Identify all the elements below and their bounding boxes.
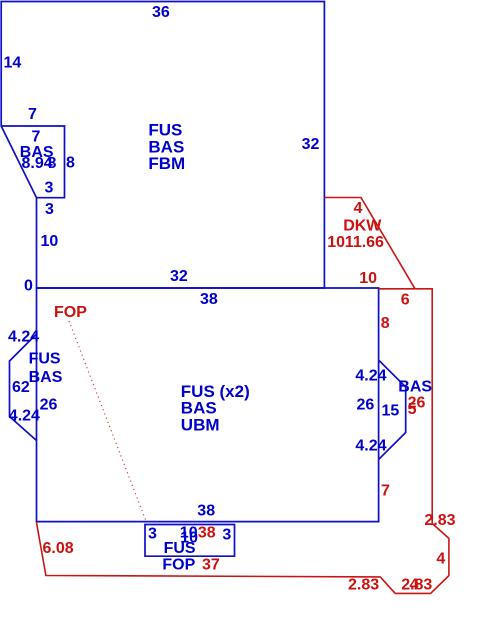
svg-text:8: 8	[66, 155, 75, 172]
svg-text:DKW: DKW	[343, 218, 382, 235]
svg-text:4: 4	[410, 577, 419, 594]
svg-text:3: 3	[222, 527, 231, 544]
svg-text:38: 38	[200, 291, 218, 308]
svg-text:4: 4	[354, 200, 363, 217]
svg-text:4.24: 4.24	[355, 438, 386, 455]
svg-text:4.24: 4.24	[355, 367, 386, 384]
svg-text:7: 7	[28, 106, 37, 123]
piece FUS(x2)/BAS/UBM outline (middle panel)	[37, 288, 379, 522]
svg-text:6: 6	[401, 292, 410, 309]
svg-text:0: 0	[24, 278, 33, 295]
small BAS piece diagonal edge 8.94	[1, 126, 36, 198]
svg-text:26: 26	[40, 397, 58, 414]
svg-text:2.83: 2.83	[348, 577, 379, 594]
left tab piece FUS/BAS hexagon	[10, 334, 37, 441]
svg-text:36: 36	[152, 4, 170, 21]
svg-text:37: 37	[202, 557, 220, 574]
svg-text:38: 38	[197, 503, 215, 520]
svg-text:10: 10	[359, 270, 377, 287]
svg-text:BAS: BAS	[29, 369, 63, 386]
bottom small piece FUS/FOP rectangle	[145, 525, 235, 557]
svg-text:7: 7	[381, 483, 390, 500]
svg-text:8: 8	[381, 315, 390, 332]
svg-text:62: 62	[12, 379, 30, 396]
svg-text:14: 14	[4, 55, 22, 72]
svg-text:FOP: FOP	[54, 304, 87, 321]
svg-text:38: 38	[198, 525, 216, 542]
svg-text:3: 3	[45, 180, 54, 197]
piece FUS/BAS/FBM outline (top panel)	[1, 2, 324, 289]
dashed leader line from FOP label to small piece	[69, 321, 146, 521]
svg-text:3: 3	[148, 525, 157, 542]
red piece FOP outer outline	[36, 289, 449, 594]
svg-text:FUS: FUS	[164, 540, 196, 557]
svg-text:6.08: 6.08	[43, 540, 74, 557]
svg-text:7: 7	[32, 129, 41, 146]
svg-text:FBM: FBM	[148, 154, 185, 173]
svg-text:4.24: 4.24	[9, 408, 40, 425]
svg-text:BAS: BAS	[398, 379, 432, 396]
svg-text:FUS: FUS	[29, 351, 61, 368]
svg-text:UBM: UBM	[181, 415, 220, 434]
svg-text:32: 32	[170, 268, 188, 285]
svg-text:3: 3	[45, 201, 54, 218]
svg-text:5: 5	[408, 401, 417, 418]
svg-text:10: 10	[327, 234, 345, 251]
svg-text:FOP: FOP	[162, 557, 195, 574]
svg-text:8: 8	[48, 155, 57, 172]
svg-text:2.83: 2.83	[424, 512, 455, 529]
svg-text:4.24: 4.24	[8, 329, 39, 346]
right tab piece BAS hexagon	[379, 360, 406, 460]
svg-text:32: 32	[302, 136, 320, 153]
svg-text:10: 10	[41, 233, 59, 250]
red piece DKW outline	[324, 198, 415, 289]
svg-text:4: 4	[436, 550, 445, 567]
svg-text:26: 26	[357, 396, 375, 413]
svg-text:15: 15	[382, 403, 400, 420]
svg-text:11.66: 11.66	[345, 234, 384, 251]
